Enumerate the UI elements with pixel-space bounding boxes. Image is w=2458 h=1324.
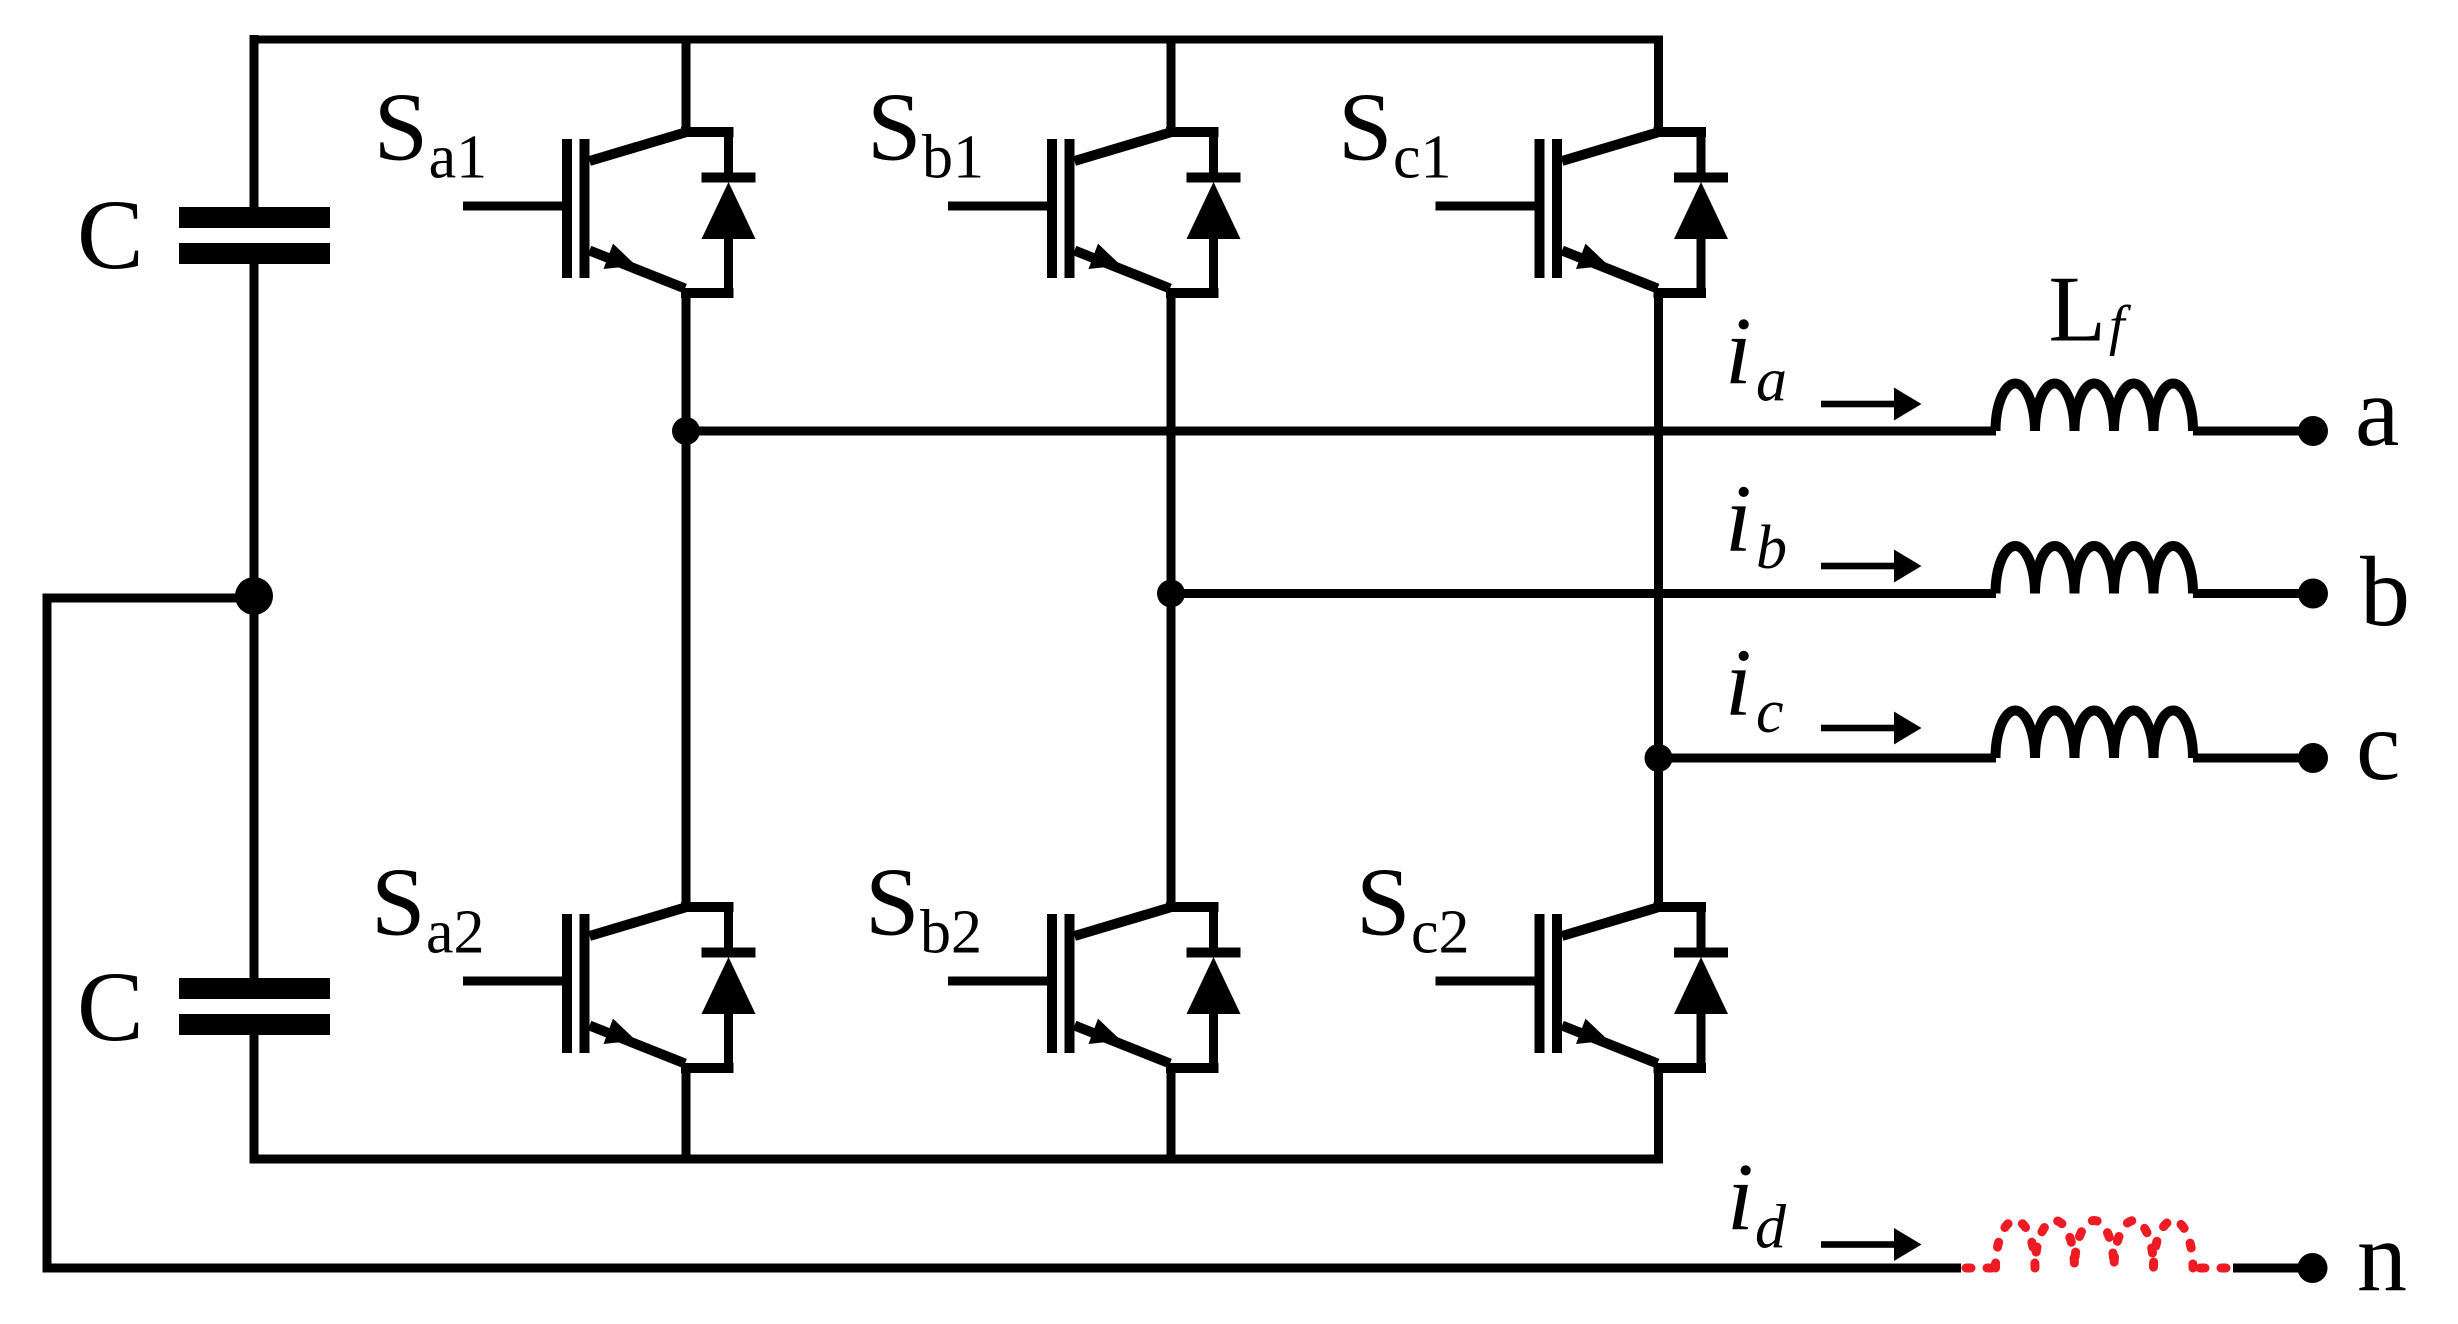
label Sb1 <box>867 74 984 192</box>
svg-text:d: d <box>1755 1194 1787 1262</box>
svg-text:a1: a1 <box>429 124 488 192</box>
svg-text:n: n <box>2357 1202 2407 1313</box>
wire: phase b output line to filter inductor <box>1171 589 1996 598</box>
svg-text:c: c <box>1756 678 1784 746</box>
wire: leg a vertical (upper emitter through phase node to lower collector) <box>682 289 691 908</box>
capacitor C (bottom) <box>179 978 330 1035</box>
inductor Lf phase a <box>1996 384 2194 431</box>
arrow: current direction i_b <box>1821 550 1922 583</box>
node: output terminal a dot <box>2298 416 2328 446</box>
svg-text:b: b <box>2360 536 2410 647</box>
wire: bottom DC bus <box>250 1155 1664 1164</box>
transistor Sa1 (IGBT with antiparallel diode) <box>463 132 756 293</box>
wire: leg c lower emitter to bottom bus <box>1654 1064 1663 1160</box>
transistor Sb1 (IGBT with antiparallel diode) <box>948 132 1241 293</box>
svg-text:b1: b1 <box>922 124 984 192</box>
node: output terminal c dot <box>2298 743 2328 773</box>
svg-text:S: S <box>371 849 426 957</box>
label Lf (filter inductance) <box>2049 258 2133 362</box>
svg-text:c: c <box>2356 690 2400 801</box>
transistor Sc2 (IGBT with antiparallel diode) <box>1436 907 1729 1068</box>
svg-text:S: S <box>867 74 922 182</box>
svg-text:S: S <box>865 849 920 957</box>
wire: leg a lower emitter to bottom bus <box>682 1064 691 1160</box>
svg-text:S: S <box>1356 849 1411 957</box>
svg-text:c2: c2 <box>1411 899 1470 967</box>
svg-text:S: S <box>374 74 429 182</box>
svg-text:c1: c1 <box>1393 124 1452 192</box>
wire: leg c vertical (upper emitter through phase node to lower collector) <box>1654 289 1663 908</box>
node: neutral terminal n dot <box>2298 1253 2328 1283</box>
svg-text:f: f <box>2109 295 2132 357</box>
wire: left vertical of neutral path <box>43 594 52 1273</box>
svg-text:L: L <box>2049 258 2106 362</box>
wire: midpoint node to left edge <box>43 594 254 603</box>
wire: midpoint node to capacitor C (bottom) <box>250 595 259 979</box>
wire: inductor to terminal a <box>2193 427 2301 436</box>
wire: leg b vertical (upper emitter through phase node to lower collector) <box>1167 289 1176 908</box>
label current i_c <box>1725 629 1784 747</box>
wire: left DC-link vertical, bus to capacitor C (top) <box>250 35 259 208</box>
wire: inductor to terminal b <box>2193 589 2301 598</box>
label Sb2 <box>865 849 982 967</box>
svg-text:b: b <box>1756 514 1787 582</box>
svg-text:i: i <box>1725 629 1752 736</box>
node: phase a junction dot on leg <box>672 417 700 445</box>
node: phase c junction dot on leg <box>1645 744 1673 772</box>
label Sa2 <box>371 849 485 967</box>
wire: inductor to terminal c <box>2193 754 2301 763</box>
transistor Sa2 (IGBT with antiparallel diode) <box>463 907 756 1068</box>
wire: capacitor C (bottom) to bottom DC bus <box>250 1035 259 1164</box>
label Sa1 <box>374 74 488 192</box>
label current i_d <box>1727 1143 1787 1262</box>
inductor Lf phase b <box>1996 546 2194 593</box>
inductor Lf phase c <box>1996 711 2194 759</box>
svg-text:S: S <box>1338 74 1393 182</box>
label current i_b <box>1725 465 1787 583</box>
node: output terminal b dot <box>2298 579 2328 609</box>
wire: short black lead to terminal n <box>2233 1264 2300 1273</box>
node: DC-link midpoint junction dot <box>235 577 273 615</box>
wire: bottom neutral horizontal to inductor <box>43 1264 1962 1273</box>
transistor Sc1 (IGBT with antiparallel diode) <box>1436 132 1729 293</box>
wire: red dashed lead-out of neutral inductor <box>2200 1264 2231 1273</box>
wire: phase a output line to filter inductor <box>686 427 1996 436</box>
transistor Sb2 (IGBT with antiparallel diode) <box>948 907 1241 1068</box>
svg-text:i: i <box>1725 465 1752 572</box>
label current i_a <box>1725 297 1787 415</box>
wire: leg c collector stub from top bus <box>1654 40 1663 133</box>
svg-text:b2: b2 <box>920 899 982 967</box>
wire: capacitor C (top) to midpoint node <box>250 264 259 596</box>
arrow: current direction i_c <box>1821 712 1922 745</box>
svg-text:C: C <box>77 179 144 290</box>
svg-text:C: C <box>77 951 144 1062</box>
arrow: current direction i_a <box>1821 388 1922 421</box>
node: phase b junction dot on leg <box>1157 580 1185 608</box>
label Sc1 <box>1338 74 1452 192</box>
label Sc2 <box>1356 849 1470 967</box>
svg-text:a: a <box>2355 356 2399 467</box>
inductor: neutral (red dashed) <box>1996 1221 2194 1268</box>
wire: red dashed lead-in to neutral inductor <box>1966 1264 1999 1273</box>
svg-text:i: i <box>1725 297 1752 404</box>
wire: phase c output line to filter inductor <box>1659 754 1997 763</box>
wire: leg a collector stub from top bus <box>682 40 691 133</box>
wire: top DC bus <box>250 36 1664 44</box>
svg-text:a: a <box>1756 347 1787 415</box>
capacitor C (top) <box>179 207 330 264</box>
wire: leg b collector stub from top bus <box>1167 40 1176 133</box>
svg-text:a2: a2 <box>426 899 485 967</box>
svg-text:i: i <box>1727 1143 1754 1250</box>
wire: leg b lower emitter to bottom bus <box>1167 1064 1176 1160</box>
arrow: current direction i_d <box>1821 1228 1922 1261</box>
